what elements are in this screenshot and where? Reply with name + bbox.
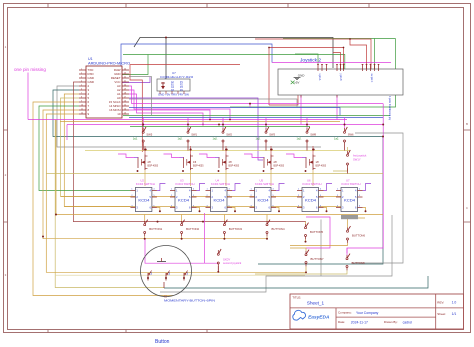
svg-text:21: 21	[124, 80, 126, 82]
switch SW5	[142, 128, 144, 131]
wires transistor gate feeds	[118, 154, 134, 158]
svg-text:14: 14	[124, 108, 126, 110]
wire pale under-switch bus	[85, 150, 350, 152]
wire green top right link	[375, 38, 396, 40]
wire gold SW1Y bottom	[333, 168, 348, 171]
svg-text:2: 2	[81, 72, 82, 74]
svg-text:BSP-4055: BSP-4055	[193, 166, 204, 168]
svg-text:SW1Y: SW1Y	[353, 158, 361, 162]
wire BUTTON2 top	[181, 215, 183, 222]
wire darkred gnd bus	[73, 82, 306, 222]
transistor Q5 BSP-4055	[263, 157, 265, 168]
svg-text:1a2.: 1a2.	[256, 137, 261, 141]
svg-text:KCD4: KCD4	[178, 199, 189, 203]
svg-text:10: 10	[117, 112, 121, 116]
wire one-pin-missing magenta	[27, 73, 29, 120]
svg-text:GND +5V VRX VRY SW: GND +5V VRX VRY SW	[158, 95, 190, 97]
wire BUTTON4 bottom	[266, 236, 268, 238]
wire KCD4 U5 pin4 purple	[276, 184, 285, 191]
wire red top 2	[269, 48, 344, 106]
svg-text:U1: U1	[88, 57, 93, 61]
svg-text:TITLE:: TITLE:	[292, 296, 301, 300]
wire gold SW1Y top	[347, 147, 349, 151]
transistor Q3 BSP-4055	[218, 157, 220, 168]
wire green top 2	[283, 39, 375, 70]
junction dots	[145, 149, 147, 151]
svg-text:Date:: Date:	[338, 320, 345, 324]
svg-text:EasyEDA: EasyEDA	[308, 314, 330, 320]
wire KCD4 U6 pin4 purple	[324, 184, 333, 191]
wire orange pin8 bundle	[43, 110, 267, 239]
svg-text:13: 13	[124, 112, 126, 114]
svg-text:KCD4 SWITCH: KCD4 SWITCH	[303, 182, 322, 186]
wire orange circle bus	[141, 271, 306, 273]
wire KCD4 U7 pin6 down	[363, 208, 366, 212]
svg-text:cadrol: cadrol	[403, 320, 412, 324]
svg-text:23: 23	[124, 72, 126, 74]
switch SW3	[265, 128, 267, 131]
svg-text:4: 4	[81, 80, 82, 82]
svg-text:one pin missing: one pin missing	[14, 67, 46, 72]
frame zone ticks	[47, 4, 49, 8]
switch SW8	[306, 128, 308, 131]
wire Q5 to KCD4	[270, 174, 272, 187]
wire transistor Q5 source down	[270, 170, 272, 174]
wire magenta matrix loop	[67, 124, 383, 126]
wire magenta joystick bottom drops	[300, 95, 302, 125]
svg-text:y pin B: y pin B	[339, 74, 341, 81]
svg-text:24: 24	[124, 68, 126, 70]
svg-text:sw pin C: sw pin C	[370, 74, 372, 83]
svg-text:2024-11-17: 2024-11-17	[351, 320, 368, 324]
wire transistor Q1 source down	[312, 170, 314, 174]
wire red joystick 5v drop	[269, 85, 298, 106]
transistor Q2 BSP-4055	[137, 157, 139, 168]
wire magenta above joystick	[272, 62, 391, 64]
svg-text:second joystick: second joystick	[223, 261, 242, 265]
svg-text:BUTTON5: BUTTON5	[310, 230, 323, 234]
junction KCD4 U5	[278, 210, 280, 212]
svg-text:BUTTON7: BUTTON7	[311, 257, 324, 261]
push button BUTTON2	[181, 221, 183, 224]
svg-text:19: 19	[124, 88, 126, 90]
wire gray stub 321	[320, 220, 322, 277]
wire magenta band drop	[204, 213, 206, 263]
wire gold under-transistor bus	[46, 173, 383, 175]
svg-text:MOMENTARY-BUTTON-6PIN: MOMENTARY-BUTTON-6PIN	[164, 299, 215, 303]
wire red top 3	[333, 53, 341, 70]
svg-text:frst joystick: frst joystick	[353, 154, 367, 158]
wire transistor Q2 source down	[144, 170, 146, 174]
wire orange pin6 bundle	[33, 102, 173, 296]
wire green top 3	[295, 54, 318, 64]
wire KCD4 U4 pin4 purple	[232, 184, 241, 191]
svg-text:ARDUINO-PRO-MICRO: ARDUINO-PRO-MICRO	[88, 62, 130, 66]
wire orange pin4 bundle	[64, 94, 130, 207]
title block	[290, 294, 464, 329]
svg-text:KCD4 SWITCH: KCD4 SWITCH	[255, 182, 274, 186]
push button BUTTON6	[347, 228, 349, 231]
svg-text:5: 5	[81, 84, 82, 86]
switch SW2	[222, 128, 224, 131]
wire black ky023 to joystick	[166, 38, 333, 83]
junction KCD4 U4	[234, 210, 236, 212]
junction KCD4 U3	[199, 210, 201, 212]
svg-text:SW8: SW8	[310, 133, 316, 137]
wire green switch top bus	[130, 126, 310, 128]
transistor Q1 BSP-4055	[305, 157, 307, 168]
svg-text:1a2.: 1a2.	[297, 137, 302, 141]
wire BUTTON1 top	[144, 215, 146, 222]
svg-text:KCD4: KCD4	[258, 199, 269, 203]
svg-text:B: B	[466, 122, 468, 126]
svg-text:10: 10	[81, 104, 83, 106]
wire Q4 to KCD4	[190, 174, 192, 187]
svg-text:Sheet:: Sheet:	[437, 312, 446, 316]
svg-text:1: 1	[81, 68, 82, 70]
svg-text:BUTTON4: BUTTON4	[272, 227, 285, 231]
wire BUTTON3 top	[223, 215, 225, 222]
wire red top 4	[350, 39, 367, 69]
wire transistor Q4 source down	[190, 170, 192, 174]
svg-text:11: 11	[81, 108, 83, 110]
svg-text:15: 15	[124, 104, 126, 106]
svg-text:1/1: 1/1	[452, 312, 457, 316]
svg-text:BUTTON6: BUTTON6	[352, 233, 365, 237]
wire gold pin5 bundle	[61, 98, 131, 197]
svg-text:+5V: +5V	[294, 80, 299, 84]
junction red top	[349, 38, 351, 40]
wire orange kcd row bus a	[64, 206, 341, 208]
wire KCD4 U3 pin4 purple	[197, 184, 206, 191]
junction KCD4 U7	[365, 210, 367, 212]
svg-text:KCD4: KCD4	[214, 199, 225, 203]
svg-text:x pin A: x pin A	[318, 74, 321, 81]
svg-text:7: 7	[81, 92, 82, 94]
push button BUTTON1	[144, 221, 146, 224]
svg-text:BSP-4055: BSP-4055	[274, 166, 285, 168]
wire purple U1 vcc right	[122, 77, 150, 83]
svg-text:KCD4: KCD4	[305, 199, 316, 203]
svg-text:17: 17	[124, 96, 126, 98]
svg-text:BSP-4055: BSP-4055	[229, 166, 240, 168]
wire orange long bus	[56, 120, 383, 215]
wire green top 1	[123, 55, 345, 70]
junction gnd bus	[157, 221, 159, 223]
wire Q2 to KCD4	[144, 174, 146, 187]
wire gold to momentary	[55, 120, 164, 288]
svg-text:1a2.: 1a2.	[133, 137, 138, 141]
push button BUTTON4	[266, 221, 268, 224]
wire blue top	[121, 44, 272, 66]
svg-text:20: 20	[124, 84, 126, 86]
wire green pin7 bundle	[39, 106, 131, 191]
transistor Q4 BSP-4055	[183, 157, 185, 168]
wire teal momentary to right	[164, 276, 428, 288]
wire KCD4 U2 pin6 down	[157, 208, 160, 212]
wire Q1 to KCD4	[312, 174, 314, 187]
svg-text:1 pole thumbstick joy: 1 pole thumbstick joy	[388, 96, 392, 121]
wire green U1 gnd right	[122, 55, 148, 75]
svg-text:1a2.: 1a2.	[334, 137, 339, 141]
wire red top 1	[255, 39, 371, 69]
svg-text:1.0: 1.0	[452, 300, 457, 304]
svg-text:3: 3	[81, 76, 82, 78]
svg-text:SW6: SW6	[348, 133, 354, 137]
push button S2 MOMENTARY-BUTTON-6PIN	[141, 246, 192, 297]
wire gray module loop	[129, 77, 151, 116]
wire orange pin9 bundle	[46, 114, 141, 272]
svg-text:KCD4: KCD4	[138, 199, 149, 203]
net label bar	[341, 215, 358, 219]
svg-text:BUTTON8: BUTTON8	[352, 261, 365, 265]
wire KCD4 U4 pin6 down	[232, 208, 235, 212]
wire Q3 to KCD4	[225, 174, 227, 187]
svg-text:1a2.: 1a2.	[213, 137, 218, 141]
svg-text:1a2.: 1a2.	[178, 137, 183, 141]
svg-text:SW1: SW1	[191, 133, 197, 137]
svg-text:KCD4 SWITCH: KCD4 SWITCH	[136, 182, 155, 186]
wire magenta left drop	[66, 125, 68, 141]
svg-text:KCD4 SWITCH: KCD4 SWITCH	[342, 182, 361, 186]
wire BUTTON2 bottom	[181, 236, 183, 238]
wire orange sxdy bottom	[217, 266, 219, 272]
junction KCD4 U2	[159, 210, 161, 212]
switch SW1	[187, 128, 189, 131]
wire orange kcd row bus b	[61, 196, 341, 198]
svg-text:9: 9	[81, 100, 82, 102]
wire KCD4 U7 pin4 purple	[363, 184, 372, 191]
junction KCD4 U6	[326, 210, 328, 212]
svg-text:BSP-4055: BSP-4055	[316, 166, 327, 168]
wire teal pin3 loop	[53, 90, 383, 264]
wires signal band from U1	[129, 99, 297, 107]
svg-text:BUTTON3: BUTTON3	[229, 227, 242, 231]
svg-text:Button: Button	[155, 339, 170, 345]
wire magenta momentary loop	[145, 240, 218, 264]
wire green joystick right drop	[230, 39, 396, 108]
svg-text:18: 18	[124, 92, 126, 94]
svg-text:SXDY: SXDY	[223, 258, 231, 262]
svg-text:KCD4 SWITCH: KCD4 SWITCH	[176, 182, 195, 186]
svg-text:BUTTON2: BUTTON2	[186, 227, 199, 231]
wire KCD4 U3 pin6 down	[197, 208, 200, 212]
svg-text:8: 8	[81, 96, 82, 98]
svg-text:Drawn By:: Drawn By:	[384, 320, 398, 324]
svg-text:Sheet_1: Sheet_1	[307, 301, 325, 306]
wire pale circle bus	[55, 274, 305, 276]
svg-text:Company:: Company:	[338, 311, 352, 315]
wire BUTTON3 bottom	[223, 236, 225, 238]
wires right buttons	[306, 217, 330, 248]
svg-text:KCD4: KCD4	[344, 199, 355, 203]
svg-text:6: 6	[81, 88, 82, 90]
wire magenta right drop	[347, 104, 383, 253]
push button BUTTON5	[305, 224, 307, 227]
svg-text:REV:: REV:	[437, 300, 444, 304]
push button BUTTON7	[305, 251, 307, 254]
wire BUTTON4 top	[266, 215, 268, 222]
wire gray right box	[352, 133, 403, 263]
switch first joystick SW1Y	[347, 151, 349, 154]
svg-text:Joystick 2: Joystick 2	[300, 58, 321, 64]
svg-text:12: 12	[81, 112, 83, 114]
push button BUTTON8	[346, 255, 348, 258]
wire transistor Q3 source down	[225, 170, 227, 174]
svg-text:22: 22	[124, 76, 126, 78]
switch SXDY second joystick	[217, 250, 219, 253]
wire BUTTON1 bottom	[144, 236, 146, 238]
junction switch row	[142, 124, 144, 126]
svg-text:BSP-4055: BSP-4055	[148, 166, 159, 168]
svg-text:GND: GND	[298, 74, 306, 78]
svg-text:Your Company: Your Company	[356, 311, 379, 315]
svg-text:BUTTON1: BUTTON1	[149, 227, 162, 231]
push button BUTTON3	[223, 221, 225, 224]
wire gray right box 2	[160, 215, 392, 292]
svg-text:SW2: SW2	[226, 133, 232, 137]
wire KCD4 U6 pin6 down	[324, 208, 327, 212]
wire KCD4 U2 pin4 purple	[157, 184, 166, 191]
wire red reset loop	[130, 65, 240, 152]
wire gray pin2 bundle	[57, 86, 321, 147]
svg-text:KCD4 SWITCH: KCD4 SWITCH	[211, 182, 230, 186]
switch SW6	[344, 128, 346, 131]
svg-text:CQRobot-KY-023: CQRobot-KY-023	[160, 75, 194, 79]
svg-text:16: 16	[124, 100, 126, 102]
svg-text:SW3: SW3	[269, 133, 275, 137]
svg-text:SW5: SW5	[146, 133, 152, 137]
wire KCD4 U5 pin6 down	[276, 208, 279, 212]
